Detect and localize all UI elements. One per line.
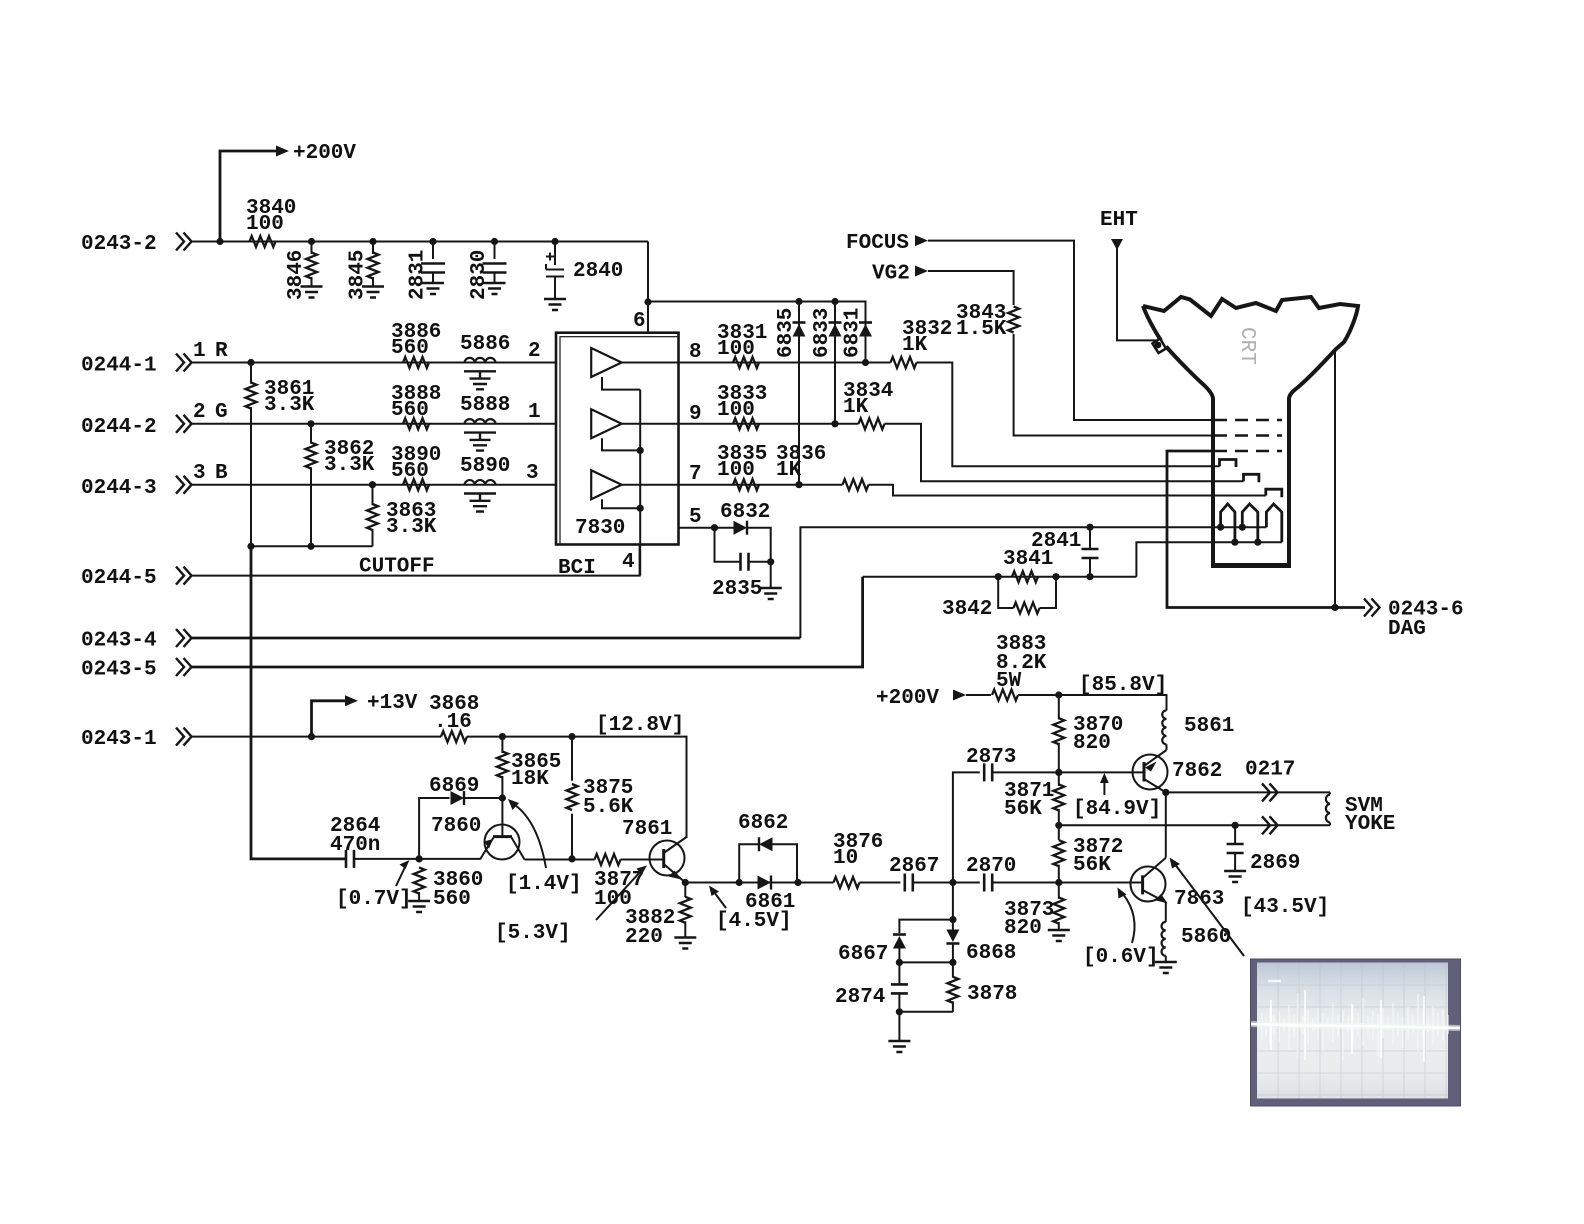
node 3875 bottom <box>568 855 575 862</box>
svg-text:[12.8V]: [12.8V] <box>596 714 684 737</box>
svg-text:0244-2: 0244-2 <box>81 416 157 439</box>
resistor 3842 (parallel) <box>942 577 1056 621</box>
node emitter 7861 <box>682 879 689 886</box>
annotation [4.5V] <box>709 886 792 934</box>
node 3860 top <box>416 855 423 862</box>
capacitor 2864 470n <box>330 815 480 868</box>
resistor 3846 <box>285 242 323 301</box>
wire row 9 output <box>678 424 1243 481</box>
node 6867 top <box>949 916 956 923</box>
svg-text:0244-1: 0244-1 <box>81 355 157 378</box>
wire long vertical to 2864 <box>251 546 345 859</box>
node base 7862 <box>1055 769 1062 776</box>
node 6867 bottom <box>896 959 903 966</box>
connector 0244-2 <box>81 401 228 439</box>
svg-text:0217: 0217 <box>1245 759 1295 782</box>
heater filament 3 <box>1266 504 1281 542</box>
CRT anode notch <box>1153 339 1167 354</box>
wire VG2 via 3843 <box>915 266 1014 306</box>
svg-text:2830: 2830 <box>468 250 491 300</box>
node cutoff bus 3861 <box>247 543 254 550</box>
svg-text:R: R <box>215 340 228 363</box>
electrode dashed line (G1) <box>1214 450 1282 452</box>
svg-text:1K: 1K <box>843 396 869 419</box>
svg-text:[5.3V]: [5.3V] <box>495 922 571 945</box>
wire emitter bus to 7861 <box>525 859 664 861</box>
svg-text:2873: 2873 <box>966 746 1016 769</box>
svg-text:1K: 1K <box>902 334 928 357</box>
transistor Q7861 (NPN) <box>622 818 687 883</box>
annotation [5.3V] <box>495 866 647 946</box>
node pin6 branch <box>644 298 651 305</box>
svg-text:CUTOFF: CUTOFF <box>359 556 435 579</box>
resistor 3878 <box>952 962 954 977</box>
resistor 3835 100 <box>717 443 767 490</box>
capacitor 2867 <box>889 855 939 892</box>
wire 2867 to 2870 <box>913 882 980 884</box>
svg-text:6867: 6867 <box>838 943 888 966</box>
svg-text:2840: 2840 <box>573 260 623 283</box>
annotation [0.7V] <box>336 860 412 911</box>
transistor Q7863 (NPN) <box>1131 858 1225 911</box>
diode 6867 / 6868 clamp network <box>835 883 1017 1053</box>
cathode pin B (hook) <box>1266 489 1282 497</box>
inductor 5860 <box>1155 902 1232 973</box>
node 3863 top <box>369 481 376 488</box>
wire FOCUS to CRT <box>915 235 1214 420</box>
svg-text:+200V: +200V <box>293 142 356 165</box>
heater filament 2 <box>1242 504 1258 542</box>
resistor 3888 560 <box>391 383 441 429</box>
node 3845 <box>369 238 376 245</box>
node 6862 left <box>736 879 743 886</box>
annotation [1.4V] <box>506 799 582 896</box>
net +200V (output stage) <box>876 687 991 710</box>
node 3875 top <box>568 733 575 740</box>
resistor 3872 56K <box>1053 825 1123 882</box>
svg-text:7830: 7830 <box>575 517 625 540</box>
wire G1 to DAG rail <box>1167 451 1365 608</box>
wire to 2867 <box>860 882 901 884</box>
wire 0243-2 bus <box>192 241 649 243</box>
resistor 3883 8.2K 5W <box>992 633 1047 701</box>
svg-text:56K: 56K <box>1073 854 1111 877</box>
wire +200V to collector rail <box>1018 695 1167 711</box>
resistor 3834 1K <box>843 380 893 429</box>
node 6862 right <box>794 879 801 886</box>
node 3861 top <box>247 359 254 366</box>
resistor 3877 100 <box>594 854 644 911</box>
node heater B f1 <box>1231 539 1238 546</box>
node 2831 <box>429 238 436 245</box>
svg-text:1K: 1K <box>776 459 802 482</box>
diode 6861 <box>745 876 795 915</box>
capacitor 2831 <box>407 242 446 301</box>
resistor 3860 560 <box>408 868 483 913</box>
wire B input row <box>192 484 557 486</box>
svg-text:100: 100 <box>717 459 755 482</box>
inductor 5890 <box>460 455 510 512</box>
resistor 3832 1K <box>891 318 953 368</box>
capacitor 2873 branch <box>953 746 1059 883</box>
svg-text:2874: 2874 <box>835 986 885 1009</box>
svg-text:[0.6V]: [0.6V] <box>1083 946 1159 969</box>
svg-text:[43.5V]: [43.5V] <box>1241 896 1329 919</box>
cathode pin G (hook) <box>1244 474 1259 482</box>
svg-text:3: 3 <box>193 462 206 485</box>
svg-text:100: 100 <box>717 399 755 422</box>
svg-text:CRT: CRT <box>1235 327 1258 365</box>
svg-text:6869: 6869 <box>429 775 479 798</box>
wire heater rail A (from 0243-4) <box>800 527 1266 638</box>
wire cutoff bus <box>251 545 373 547</box>
connector 0243-1 <box>81 728 192 751</box>
svg-text:6861: 6861 <box>745 891 795 914</box>
svg-text:10: 10 <box>833 847 858 870</box>
svg-text:+13V: +13V <box>367 692 418 715</box>
oscilloscope photo <box>1251 959 1461 1106</box>
wire EHT to anode <box>1111 239 1156 340</box>
node 3862 top <box>307 420 314 427</box>
svg-text:6868: 6868 <box>966 942 1016 965</box>
capacitor 2840 (electrolytic) <box>544 242 623 311</box>
svg-text:5: 5 <box>689 506 702 529</box>
svg-text:B: B <box>215 462 228 485</box>
svg-text:5.6K: 5.6K <box>583 796 634 819</box>
inductor 5861 <box>1162 710 1234 750</box>
svg-text:5861: 5861 <box>1184 715 1234 738</box>
svg-text:470n: 470n <box>330 834 380 857</box>
wire 2870 to 7863 base <box>992 882 1142 884</box>
wire emitter 7862 / collector 7863 <box>1165 792 1167 857</box>
node base 7863 <box>1055 879 1062 886</box>
svg-text:820: 820 <box>1004 917 1042 940</box>
connector 0217 (top) <box>1262 783 1278 801</box>
svg-text:3846: 3846 <box>285 250 308 300</box>
svg-text:DAG: DAG <box>1388 618 1426 641</box>
svg-text:0244-3: 0244-3 <box>81 477 157 500</box>
resistor 3868 .16 <box>429 693 479 742</box>
node 6832 anode <box>711 524 718 531</box>
wire internal feedback bus / pin 4 <box>639 390 641 576</box>
node 2830 <box>491 238 498 245</box>
svg-text:[84.9V]: [84.9V] <box>1073 798 1161 821</box>
svg-text:+200V: +200V <box>876 687 939 710</box>
resistor 3863 3.3K <box>367 485 437 547</box>
svg-text:3: 3 <box>526 462 539 485</box>
svg-text:3842: 3842 <box>942 598 992 621</box>
svg-text:5886: 5886 <box>460 333 510 356</box>
resistor 3876 10 <box>833 831 883 888</box>
resistor 3886 560 <box>391 321 441 368</box>
wire row 8 output <box>678 363 1219 467</box>
svg-text:0244-5: 0244-5 <box>81 567 157 590</box>
svg-text:18K: 18K <box>511 768 549 791</box>
svg-text:2: 2 <box>193 401 206 424</box>
transistor Q7862 (NPN) <box>1133 750 1223 792</box>
wire G2 bias rail <box>863 576 1137 578</box>
diode 6867 <box>893 935 906 949</box>
transistor Q7860 (PNP) <box>431 798 525 860</box>
svg-text:5890: 5890 <box>460 455 510 478</box>
resistor 3841 <box>995 548 1060 582</box>
svg-text:1: 1 <box>193 340 206 363</box>
wire DAG coating <box>1334 350 1336 608</box>
node 3870 top <box>1055 691 1062 698</box>
svg-text:5888: 5888 <box>460 394 510 417</box>
svg-text:2831: 2831 <box>407 250 430 300</box>
svg-text:6833: 6833 <box>811 308 834 358</box>
resistor 3865 18K <box>497 737 562 798</box>
svg-text:0243-5: 0243-5 <box>81 659 157 682</box>
node 6868 bottom <box>949 959 956 966</box>
svg-text:7862: 7862 <box>1172 760 1222 783</box>
connector 0244-1 <box>81 340 228 378</box>
resistor 3845 <box>347 242 385 301</box>
resistor 3840 100 <box>246 197 296 247</box>
node heater A f2 <box>1239 524 1246 531</box>
capacitor 2841 <box>1031 524 1099 581</box>
node feedback C <box>637 505 644 512</box>
svg-text:[85.8V]: [85.8V] <box>1079 674 1167 697</box>
connector 0243-4 <box>81 629 192 653</box>
capacitor 2870 <box>966 855 1016 892</box>
electrode dashed line (VG2) <box>1214 434 1282 436</box>
node at +200V branch <box>216 238 223 245</box>
inductor 5886 <box>460 333 510 389</box>
cathode pin R (hook) <box>1220 460 1237 468</box>
wire row 7 output <box>678 485 1265 496</box>
wire G input row <box>192 423 557 425</box>
resistor 3831 100 <box>717 322 767 368</box>
svg-text:6: 6 <box>633 310 646 333</box>
svg-text:1: 1 <box>528 401 541 424</box>
resistor 3875 5.6K <box>567 737 634 859</box>
connector 0243-6 DAG <box>1364 599 1464 642</box>
svg-text:0243-1: 0243-1 <box>81 728 157 751</box>
op-amp buffer C (B) <box>591 470 678 508</box>
svg-text:2: 2 <box>528 340 541 363</box>
svg-text:7860: 7860 <box>431 815 481 838</box>
node DAG junction <box>1331 604 1338 611</box>
diode 6869 <box>419 775 502 859</box>
node ground join <box>896 1008 903 1015</box>
wire 0243-5 <box>192 577 863 667</box>
connector 0243-5 <box>81 658 192 682</box>
diode 6833 <box>811 298 842 428</box>
svg-text:7: 7 <box>689 463 702 486</box>
wire 0244-5 to pin 4 <box>192 545 640 576</box>
resistor 3870 820 <box>1053 695 1123 772</box>
svg-text:560: 560 <box>433 888 471 911</box>
resistor 3890 560 <box>391 444 441 490</box>
diode 6835 <box>775 298 806 488</box>
capacitor 2835 <box>712 528 782 601</box>
node 2869 <box>1232 822 1239 829</box>
wire SVM return rail <box>1059 824 1330 826</box>
svg-text:0243-2: 0243-2 <box>81 233 157 256</box>
svg-text:560: 560 <box>391 399 429 422</box>
svg-text:3.3K: 3.3K <box>386 516 437 539</box>
connector 0217 (bottom) <box>1262 816 1278 834</box>
svg-text:56K: 56K <box>1004 798 1042 821</box>
svg-text:[1.4V]: [1.4V] <box>506 873 582 896</box>
svg-text:9: 9 <box>689 403 702 426</box>
electrode dashed line (focus) <box>1214 419 1282 421</box>
svg-text:6831: 6831 <box>842 308 865 358</box>
resistor 3871 56K <box>1004 772 1064 825</box>
node cutoff bus 3862 <box>307 543 314 550</box>
svg-text:2835: 2835 <box>712 578 762 601</box>
svg-text:100: 100 <box>717 338 755 361</box>
heater filament 1 <box>1221 504 1235 542</box>
svg-text:100: 100 <box>246 213 284 236</box>
capacitor 2830 <box>468 242 507 301</box>
diode 6862 (reverse, top branch) <box>738 812 797 883</box>
svg-text:820: 820 <box>1073 732 1111 755</box>
capacitor 2869 <box>1224 825 1300 882</box>
node feedback B <box>637 447 644 454</box>
svg-text:0243-4: 0243-4 <box>81 630 157 653</box>
op-amp buffer B (G) <box>591 409 678 450</box>
wire diode midpoint link <box>899 961 953 963</box>
svg-text:5W: 5W <box>996 670 1022 693</box>
wire to SVM chevron (top) <box>1166 791 1330 793</box>
wire 0243-4 <box>192 637 801 640</box>
op-amp buffer A (R) <box>591 348 678 390</box>
resistor 3833 100 <box>717 383 767 429</box>
svg-text:[0.7V]: [0.7V] <box>336 888 412 911</box>
ground <box>888 1041 910 1052</box>
resistor 3836 1K <box>776 443 869 490</box>
svg-text:560: 560 <box>391 460 429 483</box>
wire 0243-1 row <box>192 737 687 838</box>
svg-text:3.3K: 3.3K <box>264 394 315 417</box>
svg-text:G: G <box>215 401 228 424</box>
annotation [84.9V] <box>1073 773 1161 821</box>
wire R input row <box>192 362 557 364</box>
svg-text:FOCUS: FOCUS <box>846 232 909 255</box>
capacitor 2874 <box>898 962 900 984</box>
resistor 3882 220 <box>625 883 696 950</box>
annotation [0.6V] <box>1083 888 1159 970</box>
wire pin 5 <box>678 527 735 529</box>
svg-text:3845: 3845 <box>347 250 370 300</box>
connector 0244-3 <box>81 462 228 500</box>
svg-text:BCI: BCI <box>558 557 596 580</box>
node emitter 7862 <box>1162 789 1169 796</box>
svg-text:.16: .16 <box>434 711 472 734</box>
SVM yoke coil <box>1326 792 1396 836</box>
node heater B f2 <box>1254 539 1261 546</box>
wire emitter to diodes <box>685 882 833 884</box>
diode 6831 <box>842 308 873 367</box>
wire pin 6 lead <box>647 302 649 333</box>
svg-text:8: 8 <box>689 341 702 364</box>
svg-text:2869: 2869 <box>1250 852 1300 875</box>
svg-text:1.5K: 1.5K <box>956 318 1007 341</box>
diode 6832 <box>720 501 771 562</box>
wire bus to IC pin 6 <box>647 242 649 303</box>
svg-text:6862: 6862 <box>738 812 788 835</box>
node 2840 <box>551 238 558 245</box>
resistor 3843 1.5K <box>956 302 1214 436</box>
node base 7860 <box>499 794 506 801</box>
inductor 5888 <box>460 394 510 451</box>
resistor 3862 3.3K <box>306 424 375 547</box>
annotation [43.5V] <box>1170 858 1330 957</box>
op-amp U7830 box <box>556 333 679 545</box>
svg-text:2867: 2867 <box>889 855 939 878</box>
CRT envelope outline <box>1143 297 1358 566</box>
node 2873 branch <box>949 879 956 886</box>
resistor 3861 3.3K <box>246 363 315 547</box>
connector 0243-2 <box>81 233 192 257</box>
svg-text:6832: 6832 <box>720 501 770 524</box>
wire heater rail B <box>1136 542 1281 577</box>
svg-text:VG2: VG2 <box>872 263 910 286</box>
svg-text:3878: 3878 <box>967 983 1017 1006</box>
svg-text:220: 220 <box>625 926 663 949</box>
diode 6868 <box>946 930 959 944</box>
wire base 7862 <box>1059 771 1144 773</box>
svg-text:4: 4 <box>622 551 635 574</box>
node 3865 top <box>499 733 506 740</box>
svg-text:3841: 3841 <box>1003 548 1053 571</box>
svg-text:6835: 6835 <box>775 308 798 358</box>
svg-text:560: 560 <box>391 337 429 360</box>
wire diode top rail <box>648 302 866 314</box>
svg-text:2870: 2870 <box>966 855 1016 878</box>
svg-text:7863: 7863 <box>1174 888 1224 911</box>
svg-text:7861: 7861 <box>622 818 672 841</box>
node 3846 <box>308 238 315 245</box>
svg-text:3.3K: 3.3K <box>324 454 375 477</box>
resistor 3873 820 <box>1004 883 1070 942</box>
net +200V (top) <box>220 142 356 242</box>
node 3871/3872 <box>1055 822 1062 829</box>
connector 0244-5 <box>81 567 192 590</box>
svg-text:EHT: EHT <box>1100 209 1138 232</box>
svg-text:YOKE: YOKE <box>1345 813 1395 836</box>
node heater A f1 <box>1217 524 1224 531</box>
net +13V <box>308 692 418 740</box>
